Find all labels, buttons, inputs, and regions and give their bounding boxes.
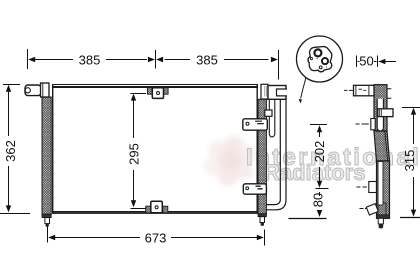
svg-text:362: 362: [3, 140, 18, 162]
svg-text:80: 80: [311, 193, 326, 207]
svg-text:50: 50: [359, 54, 373, 69]
svg-text:Radiators: Radiators: [264, 160, 365, 185]
svg-text:202: 202: [312, 141, 327, 163]
svg-text:315: 315: [402, 150, 417, 172]
svg-text:295: 295: [126, 143, 141, 165]
svg-text:673: 673: [145, 230, 167, 245]
svg-text:385: 385: [196, 53, 218, 68]
svg-text:385: 385: [79, 53, 101, 68]
